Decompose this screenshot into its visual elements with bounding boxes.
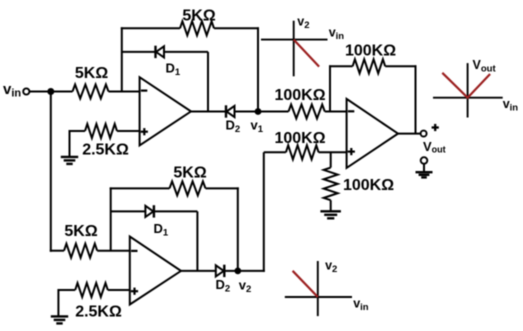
- output terminal vout (open circle): [421, 131, 427, 137]
- wire R4 to A2 inverting input: [97, 250, 130, 252]
- wire node v1 to R5: [258, 111, 289, 113]
- wire R10 to ground: [330, 200, 332, 210]
- wire feedback top segment (summing): [329, 65, 353, 67]
- resistor R4 5K ohm (bottom input): [64, 244, 97, 258]
- wire v2 riser to R9: [264, 151, 286, 153]
- resistor R5f 5K ohm (bottom feedback): [170, 181, 206, 195]
- svg-text:D2: D2: [216, 277, 231, 295]
- wire vin node down the left side: [50, 92, 52, 252]
- wire A1 noninverting input from R3: [117, 130, 140, 132]
- graph 1 horizontal axis (vin): [261, 39, 328, 41]
- resistor R1 5K ohm (top input): [73, 85, 109, 99]
- resistor R10 100K ohm (noninverting to ground, vertical): [324, 168, 338, 201]
- wire junction riser to feedback (bottom stage): [110, 187, 112, 250]
- resistor R3 2.5K ohm (top noninverting): [85, 124, 117, 138]
- reference terminal (open circle): [421, 157, 428, 164]
- graph 2 horizontal axis (vin): [433, 97, 503, 99]
- graph 3 horizontal axis (vin): [285, 296, 352, 298]
- svg-text:2.5KΩ: 2.5KΩ: [75, 304, 122, 321]
- svg-text:5KΩ: 5KΩ: [64, 223, 97, 240]
- resistor R6 2.5K ohm (bottom noninverting): [75, 283, 108, 297]
- wire node v2 to riser: [238, 270, 265, 272]
- ground (below R10): [320, 211, 341, 218]
- graph 3 vertical axis (v2): [317, 261, 319, 316]
- wire D1 branch vertical down to A1 output: [207, 52, 209, 112]
- svg-text:D1: D1: [154, 221, 169, 239]
- ground (top stage noninverting): [61, 157, 78, 164]
- wire A2 noninverting input from R6: [108, 289, 130, 291]
- diode D2 (top stage, cathode left): [226, 105, 235, 117]
- svg-text:D1: D1: [166, 61, 181, 79]
- wire feedback bottom-stage right segment: [206, 187, 239, 189]
- wire reference terminal to ground: [423, 164, 425, 172]
- ground (bottom stage noninverting): [51, 316, 68, 323]
- label + (output polarity): [432, 124, 439, 131]
- graph 1 vertical axis (v2): [293, 21, 295, 77]
- graph 1 transfer curve (red, fourth quadrant): [294, 40, 319, 67]
- diode D1 (top stage, cathode left): [156, 46, 165, 58]
- node v2 (junction dot): [234, 268, 241, 275]
- wire feedback to right vertical: [385, 65, 416, 67]
- resistor R2 5K ohm (top feedback): [180, 21, 214, 35]
- wire A2 output to D2 (bottom): [181, 270, 216, 272]
- input terminal vin (open circle): [23, 88, 29, 94]
- svg-text:v2: v2: [239, 277, 252, 295]
- wire feedback vertical down to node v2: [237, 187, 239, 271]
- wire noninverting node down to R10: [330, 152, 332, 167]
- svg-text:100KΩ: 100KΩ: [274, 130, 325, 147]
- wire D1 branch left segment (top stage): [122, 51, 156, 53]
- diode D1 (bottom stage, cathode right): [145, 205, 154, 217]
- wire junction riser to feedback (top stage): [121, 27, 123, 91]
- wire R1 to A1 inverting input: [109, 91, 140, 93]
- svg-text:Vout: Vout: [423, 139, 446, 155]
- resistor R7 100K ohm (v1 to summing node): [289, 105, 325, 119]
- wire D1 branch vertical down to A2 output: [196, 211, 198, 271]
- svg-text:5KΩ: 5KΩ: [75, 65, 108, 82]
- wire left bend to R4 (bottom input): [50, 250, 64, 252]
- svg-text:5KΩ: 5KΩ: [182, 8, 215, 25]
- wire feedback top right segment: [214, 27, 259, 29]
- op-amp A1 (top stage): [140, 77, 191, 145]
- graph 3 transfer curve (red, second quadrant): [293, 271, 318, 297]
- svg-text:5KΩ: 5KΩ: [173, 165, 206, 182]
- wire R3 left to ground drop: [69, 130, 85, 132]
- svg-text:vin: vin: [3, 81, 21, 100]
- svg-text:Vout: Vout: [473, 58, 497, 75]
- wire D1 branch right segment (bottom stage): [154, 210, 198, 212]
- svg-text:vin: vin: [503, 97, 519, 114]
- wire node to R1: [51, 91, 73, 93]
- resistor R8 100K ohm (summing feedback): [353, 59, 386, 73]
- svg-text:D2: D2: [226, 118, 241, 136]
- svg-text:v2: v2: [297, 15, 309, 32]
- wire feedback top left segment: [121, 27, 180, 29]
- wire ground drop vertical (bottom stage): [57, 289, 59, 316]
- svg-text:vin: vin: [353, 297, 369, 314]
- wire ground drop vertical (top stage): [69, 130, 71, 156]
- graph 2 transfer curve (red V shape): [442, 73, 490, 98]
- wire D2 to node v2: [224, 270, 238, 272]
- wire D2 to node v1: [235, 111, 259, 113]
- diode D2 (bottom stage, cathode right): [216, 265, 225, 277]
- svg-text:v2: v2: [325, 259, 337, 276]
- resistor R9 100K ohm (v2 to noninverting input): [286, 145, 319, 159]
- svg-text:vin: vin: [329, 25, 345, 42]
- wire summing feedback riser: [329, 65, 331, 111]
- ground (reference terminal): [416, 172, 433, 177]
- wire A1 output to D2: [191, 111, 226, 113]
- graph 2 vertical axis (vout): [467, 63, 469, 117]
- wire vin terminal to input node: [30, 91, 51, 93]
- wire D1 branch right segment: [164, 51, 208, 53]
- node vin (junction dot): [47, 88, 54, 95]
- wire feedback bottom-stage left segment: [110, 187, 170, 189]
- svg-text:100KΩ: 100KΩ: [274, 87, 325, 104]
- svg-text:v1: v1: [251, 117, 264, 135]
- svg-text:2.5KΩ: 2.5KΩ: [82, 142, 129, 159]
- op-amp A3 (summing stage): [347, 99, 398, 168]
- wire feedback vertical down to output: [415, 65, 417, 133]
- wire R7 to A3 inverting input: [325, 111, 347, 113]
- wire D1 branch left segment (bottom stage): [111, 210, 146, 212]
- wire R9 to A3 noninverting input: [319, 151, 347, 153]
- wire feedback right vertical down to node v1: [257, 27, 259, 111]
- node v1 (junction dot): [255, 108, 262, 115]
- wire R6 left to ground drop (bottom): [58, 289, 76, 291]
- svg-text:100KΩ: 100KΩ: [345, 43, 396, 60]
- wire A3 output to vout terminal: [398, 133, 421, 135]
- op-amp A2 (bottom stage): [130, 237, 181, 305]
- wire v2 riser up to summing stage: [263, 152, 265, 272]
- svg-text:100KΩ: 100KΩ: [343, 177, 394, 194]
